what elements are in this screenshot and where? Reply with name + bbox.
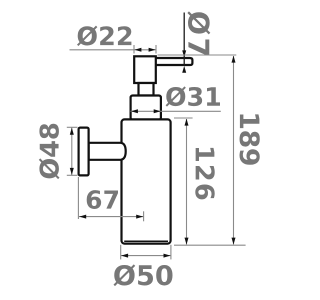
dim Ø50 arrow right (164, 254, 171, 258)
label Ø50 (113, 264, 172, 286)
collar ring (131, 96, 161, 120)
dim Ø22 arrow left (134, 48, 141, 52)
label Ø31 (166, 86, 220, 106)
dim Ø31 leader line (131, 110, 221, 112)
dim Ø50 arrow left (121, 254, 128, 258)
dim 189 arrow bottom (232, 238, 236, 245)
dim 67 extension line left (77, 177, 79, 219)
dim Ø50 extension line left (120, 245, 122, 260)
dim 126 extension line top (174, 117, 193, 119)
pump stem (139, 83, 154, 96)
dim 67 arrow left (79, 215, 86, 219)
dim Ø31 arrow left (131, 109, 138, 113)
dim Ø22 tick left (133, 45, 135, 54)
dim Ø31 arrow right (154, 109, 161, 113)
dim Ø7 line (183, 13, 185, 66)
wire spout tube (154, 58, 192, 65)
dim 189 extension line top (158, 54, 237, 56)
dim 67 arrow right (136, 215, 143, 219)
dim 126 arrow top (185, 119, 189, 126)
dim bottom extension line (174, 244, 246, 246)
label 189 (240, 114, 260, 164)
wall arm (89, 143, 126, 160)
dim 126 line (186, 119, 188, 244)
dim Ø7 arrow bottom (182, 66, 186, 73)
body base rim line (124, 240, 168, 242)
label Ø22 (77, 26, 131, 46)
dim Ø48 arrow top (70, 128, 74, 135)
dim Ø48 tick bottom (67, 174, 78, 176)
label Ø48 (39, 124, 60, 179)
dim Ø7 arrow top (182, 50, 186, 57)
dim 189 line (233, 56, 235, 244)
dim Ø22 arrow right (149, 48, 156, 52)
dim Ø48 tick top (67, 126, 78, 128)
dim 67 tick right (143, 211, 145, 221)
bottle body (122, 119, 171, 243)
label 67 (87, 190, 118, 209)
dim Ø22 leader line (70, 49, 157, 51)
dim Ø48 line (71, 127, 73, 175)
dim 189 arrow top (232, 56, 236, 63)
dim Ø48 arrow bottom (70, 168, 74, 175)
dim 126 arrow bottom (185, 238, 189, 245)
dim Ø50 extension line right (170, 245, 172, 260)
label 126 (195, 148, 214, 199)
dim Ø50 line (121, 255, 171, 257)
dim 67 line (79, 216, 144, 218)
dim Ø22 tick right (155, 45, 157, 54)
label Ø7 (187, 11, 210, 55)
wall flange plate (79, 128, 89, 176)
pump head (134, 56, 156, 83)
